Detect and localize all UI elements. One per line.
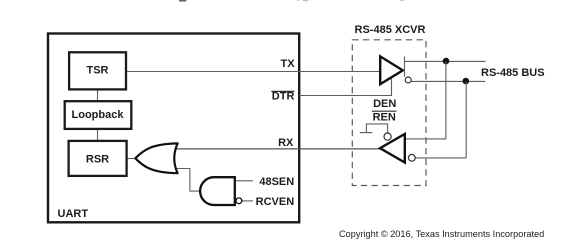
wire RX : receiver output to OR gate input — [173, 148, 380, 150]
svg-text:DTR: DTR — [272, 91, 295, 103]
svg-text:48SEN: 48SEN — [259, 176, 294, 188]
svg-text:UART: UART — [58, 208, 89, 220]
wire TX : TSR to driver input — [127, 71, 381, 73]
receiver inverting input bubble — [408, 154, 415, 161]
cut-off title descender mark 2 — [297, 0, 299, 1]
receiver triangle U1b — [380, 134, 405, 163]
wire DTR / DEN — [299, 77, 392, 96]
wire bus A down to receiver input — [445, 61, 447, 139]
svg-text:REN: REN — [373, 112, 396, 124]
svg-text:RSR: RSR — [86, 153, 109, 165]
cut-off title descender mark 1 — [179, 0, 186, 2]
AND gate (left-facing) — [200, 177, 235, 205]
wire OR gate input to AND gate output — [174, 169, 201, 192]
driver inverting output bubble — [405, 77, 411, 83]
junction dot B — [463, 78, 470, 85]
UART block outer box — [48, 34, 299, 223]
cut-off title descender mark 4 — [400, 0, 404, 1]
wire RCVEN to AND bubble — [242, 200, 253, 202]
wire bus B down to receiver input — [465, 81, 467, 158]
wire RSR to OR gate output — [127, 158, 136, 160]
junction dot A — [443, 58, 450, 65]
receiver enable bubble (REN) — [384, 133, 391, 140]
bus line B — [411, 80, 485, 82]
block Loopback — [65, 101, 132, 129]
svg-text:RS-485 XCVR: RS-485 XCVR — [355, 24, 426, 36]
cut-off title descender mark 3 — [303, 0, 308, 1]
block RSR — [69, 141, 127, 176]
svg-text:TX: TX — [281, 58, 296, 70]
svg-text:RX: RX — [278, 137, 294, 149]
wire TSR to Loopback — [97, 91, 99, 102]
wire Loopback to RSR — [97, 129, 99, 142]
driver output stub — [404, 56, 406, 77]
REN tie-low wire (staple) — [366, 124, 387, 133]
ground bar — [360, 132, 373, 134]
bus line A — [404, 60, 486, 62]
dashed RS-485 XCVR boundary box — [352, 40, 426, 186]
svg-text:RS-485 BUS: RS-485 BUS — [481, 67, 545, 79]
svg-text:RCVEN: RCVEN — [256, 196, 295, 208]
svg-text:Loopback: Loopback — [72, 109, 125, 121]
block TSR — [69, 52, 126, 89]
driver triangle U1a — [380, 56, 403, 84]
svg-text:Copyright © 2016, Texas Instru: Copyright © 2016, Texas Instruments Inco… — [339, 229, 544, 239]
AND gate inverted input bubble (RCVEN) — [236, 198, 242, 204]
svg-text:TSR: TSR — [87, 65, 109, 77]
wire receiver input B — [415, 157, 466, 159]
wire 48SEN to AND input — [235, 180, 253, 182]
OR gate (left-facing) — [135, 143, 177, 173]
svg-text:DEN: DEN — [373, 98, 396, 110]
wire receiver input A — [405, 138, 446, 140]
